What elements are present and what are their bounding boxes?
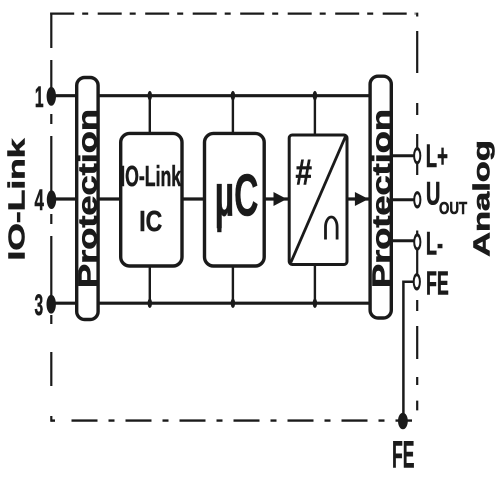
svg-text:OUT: OUT xyxy=(439,199,467,218)
svg-text:Protection: Protection xyxy=(72,109,102,288)
svg-text:Analog: Analog xyxy=(469,140,495,257)
svg-text:IO-Link: IO-Link xyxy=(120,162,181,193)
svg-text:L+: L+ xyxy=(426,138,448,175)
svg-text:IC: IC xyxy=(139,204,162,237)
svg-text:FE: FE xyxy=(426,264,449,302)
svg-text:Protection: Protection xyxy=(368,109,396,288)
svg-text:FE: FE xyxy=(392,434,415,476)
svg-text:U: U xyxy=(426,175,441,211)
svg-text:4: 4 xyxy=(34,184,44,217)
svg-text:3: 3 xyxy=(35,289,44,323)
svg-text:µC: µC xyxy=(215,162,259,228)
svg-text:IO-Link: IO-Link xyxy=(4,138,29,260)
svg-text:1: 1 xyxy=(35,81,44,115)
svg-text:L-: L- xyxy=(426,225,443,262)
svg-text:#: # xyxy=(296,152,312,192)
